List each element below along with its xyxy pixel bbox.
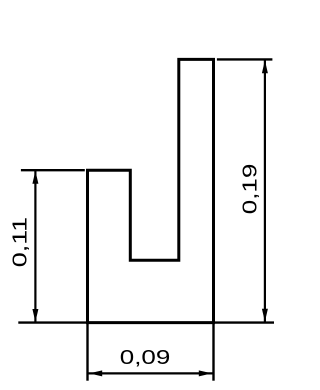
profile outline (U-channel cross-section) [88, 59, 214, 322]
dimension line 0,11 (left vertical) [34, 170, 36, 322]
arrowhead, bottom dimension left [89, 370, 102, 376]
extension line, left dimension top (y=170) [21, 169, 85, 171]
svg-text:0,19: 0,19 [239, 164, 261, 215]
svg-text:0,11: 0,11 [9, 217, 31, 268]
arrowhead, right dimension up [262, 60, 268, 73]
svg-text:0,09: 0,09 [120, 347, 171, 369]
extension line, bottom dimension right (x=213.5) [212, 323, 214, 381]
arrowhead, right dimension down [262, 309, 268, 322]
extension line, bottom dimension left (x=87.5) [86, 323, 88, 381]
dimension line 0,09 (bottom horizontal) [88, 372, 214, 374]
extension line, left dimension bottom (y=322.6) [18, 321, 87, 323]
extension line, right dimension bottom (y=322.6) [214, 321, 275, 323]
arrowhead, bottom dimension right [199, 370, 212, 376]
dimension line 0,19 (right vertical) [264, 59, 266, 322]
extension line, right dimension top (y=59.4) [217, 58, 273, 60]
arrowhead, left dimension up [32, 171, 38, 184]
arrowhead, left dimension down [32, 309, 38, 322]
